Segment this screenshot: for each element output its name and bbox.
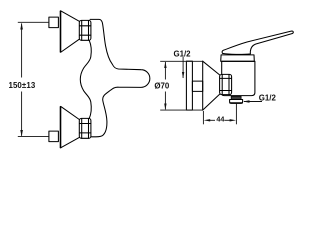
svg-text:G1/2: G1/2: [259, 93, 277, 102]
svg-text:G1/2: G1/2: [173, 49, 191, 58]
svg-text:150±13: 150±13: [8, 81, 35, 90]
svg-text:44: 44: [216, 115, 224, 124]
svg-text:Ø70: Ø70: [154, 81, 170, 90]
